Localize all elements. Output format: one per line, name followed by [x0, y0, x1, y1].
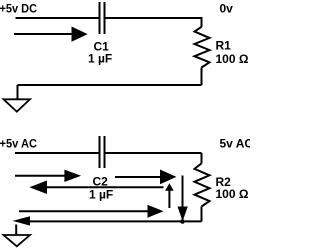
svg-text:0v: 0v: [220, 2, 234, 16]
svg-text:1 µF: 1 µF: [88, 52, 112, 66]
svg-text:100 Ω: 100 Ω: [216, 52, 249, 66]
svg-text:C2: C2: [93, 175, 109, 189]
svg-text:1 µF: 1 µF: [89, 188, 113, 202]
svg-text:+5v DC: +5v DC: [0, 2, 37, 16]
svg-text:100 Ω: 100 Ω: [216, 187, 249, 201]
svg-text:R1: R1: [216, 39, 232, 53]
svg-text:5v AC: 5v AC: [220, 137, 251, 151]
svg-text:+5v AC: +5v AC: [0, 137, 37, 151]
